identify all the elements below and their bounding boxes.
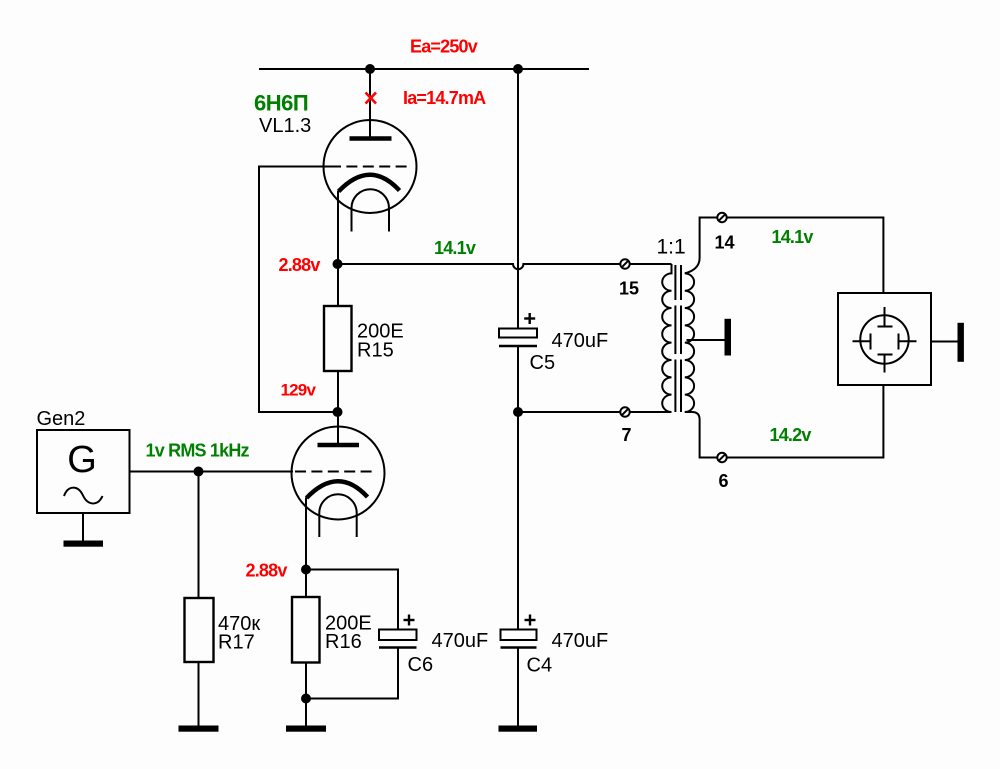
op tube VL1.3 envelope — [324, 120, 417, 213]
ground R17 — [179, 726, 219, 732]
wire anode lead VL1.3 — [369, 69, 371, 138]
ground R16 — [286, 726, 326, 732]
svg-text:6Н6П: 6Н6П — [254, 91, 308, 116]
lower tube heater — [319, 494, 356, 513]
VL1.3 cathode — [339, 175, 400, 192]
svg-text:2.88v: 2.88v — [279, 255, 321, 275]
svg-text:129v: 129v — [281, 381, 317, 400]
measuring head box — [838, 293, 931, 385]
svg-text:14.1v: 14.1v — [434, 238, 476, 258]
wire box to chassis — [931, 341, 958, 343]
node C5 junction top rail — [513, 64, 523, 74]
svg-text:Ia=14.7mA: Ia=14.7mA — [403, 88, 486, 108]
svg-text:R16: R16 — [325, 631, 362, 653]
wire C6 bottom loop — [306, 648, 398, 699]
capacitor C5 — [517, 69, 519, 329]
wire lower cathode lead — [305, 498, 307, 570]
wire 14.1v node to transformer terminal 15 with hop over C5 wire — [338, 264, 621, 269]
svg-text:15: 15 — [619, 279, 639, 299]
chassis bar centre tap — [725, 319, 732, 356]
wire feedback loop left — [259, 167, 338, 413]
resistor R16 — [305, 570, 307, 598]
VL1.3 anode plate — [350, 136, 392, 141]
wire Gen2 ground stem — [82, 513, 84, 541]
svg-text:R15: R15 — [357, 339, 394, 361]
node cathode/R15 junction 2.88v — [333, 259, 343, 269]
svg-text:470uF: 470uF — [552, 630, 609, 652]
svg-text:470uF: 470uF — [552, 330, 609, 352]
terminal 7 — [620, 407, 629, 416]
svg-text:C6: C6 — [408, 654, 434, 676]
svg-text:Gen2: Gen2 — [37, 408, 86, 430]
svg-text:2.88v: 2.88v — [246, 561, 288, 581]
transformer core — [674, 265, 676, 412]
transformer T secondary — [685, 273, 694, 412]
node anode junction top rail — [365, 64, 375, 74]
ground C4 — [499, 726, 538, 732]
svg-text:VL1.3: VL1.3 — [259, 115, 311, 137]
wire top supply rail — [259, 68, 589, 70]
resistor R15 — [324, 306, 352, 371]
node R17 junction — [194, 467, 204, 477]
wire node to terminal 7 — [518, 411, 620, 413]
Gen2 sine symbol — [64, 488, 103, 504]
terminal 14 — [717, 213, 726, 222]
svg-text:1:1: 1:1 — [657, 236, 686, 259]
terminal 15 — [620, 259, 629, 268]
capacitor C4 — [517, 412, 519, 630]
svg-text:7: 7 — [622, 425, 632, 445]
chassis bar right — [958, 323, 964, 362]
svg-text:R17: R17 — [218, 632, 255, 654]
svg-text:6: 6 — [719, 471, 729, 491]
wire secondary bottom to box — [685, 385, 884, 458]
socket right electrode — [898, 334, 900, 350]
socket left electrode — [853, 340, 871, 342]
VL1.3 grid (dashed) — [330, 166, 409, 168]
lower tube cathode — [307, 481, 368, 498]
wire Gen2 output to grid — [130, 471, 294, 473]
node C5/C4 junction — [513, 407, 523, 417]
wire secondary top to box — [685, 218, 884, 294]
resistor R17 — [198, 472, 200, 599]
generator Gen2 box — [37, 430, 130, 513]
svg-text:C5: C5 — [530, 352, 556, 374]
lower tube anode lead — [337, 412, 339, 445]
ground Gen2 — [64, 541, 104, 547]
wire cathode lead down to node — [337, 191, 339, 264]
lower tube anode plate — [318, 443, 360, 448]
svg-text:Ea=250v: Ea=250v — [410, 37, 478, 57]
svg-text:1v RMS 1kHz: 1v RMS 1kHz — [146, 441, 250, 461]
svg-text:G: G — [67, 439, 97, 481]
node R16/C6 bottom junction — [301, 694, 311, 704]
terminal 6 — [717, 453, 726, 462]
transformer T primary — [662, 264, 671, 412]
current-probe X marker — [366, 93, 377, 104]
VL1.3 heater — [352, 189, 390, 208]
svg-text:14.1v: 14.1v — [772, 227, 814, 247]
lower tube grid (dashed) — [295, 471, 377, 473]
wire node to C6 top — [306, 570, 398, 630]
svg-text:14: 14 — [715, 233, 735, 253]
svg-text:14.2v: 14.2v — [770, 425, 812, 445]
node anode junction 129v — [333, 407, 343, 417]
capacitor C6 — [379, 630, 417, 641]
svg-text:470uF: 470uF — [432, 630, 489, 652]
wire secondary centre tap — [687, 339, 725, 341]
socket top electrode — [884, 307, 886, 327]
socket bottom electrode — [878, 354, 893, 356]
measuring head tube socket circle — [860, 315, 908, 363]
svg-text:C4: C4 — [527, 655, 553, 677]
node lower cathode junction 2.88v — [301, 565, 311, 575]
VL1.3 grid lead — [259, 166, 328, 168]
lower tube envelope — [292, 427, 385, 520]
